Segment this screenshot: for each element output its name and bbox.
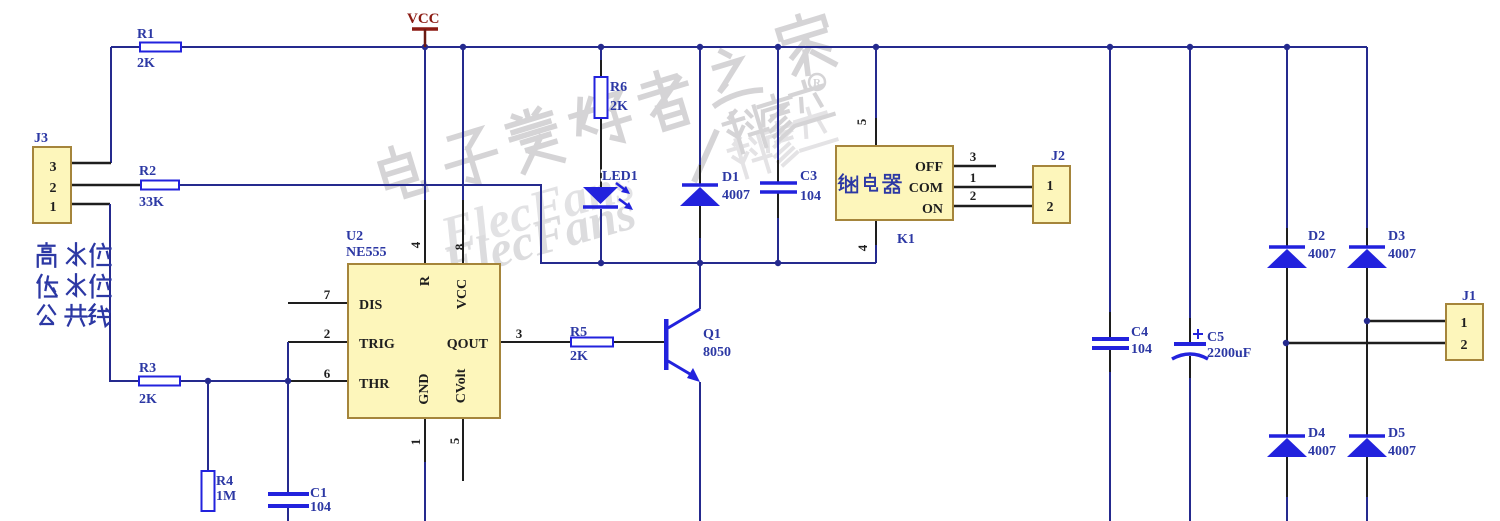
- wire J3 pin1 drop to THR line: [110, 204, 288, 381]
- svg-text:4007: 4007: [1308, 247, 1336, 262]
- wire J3 pin1 stub: [71, 203, 110, 206]
- label high water level: [38, 243, 111, 267]
- capacitor C4: [1092, 325, 1152, 357]
- svg-text:2K: 2K: [139, 392, 157, 407]
- wire C1 lower lead: [287, 508, 289, 521]
- wire R6 upper lead: [600, 47, 602, 60]
- node junction (876,47): [873, 44, 879, 50]
- svg-text:OFF: OFF: [915, 160, 943, 175]
- wire C4 column: [1109, 47, 1111, 312]
- node junction (1110,47): [1107, 44, 1113, 50]
- svg-text:R3: R3: [139, 361, 156, 376]
- wire pin8 VCC lead: [462, 47, 464, 200]
- diode D3: [1347, 229, 1416, 268]
- wire J3 pin2 stub: [71, 184, 141, 187]
- svg-text:Q1: Q1: [703, 327, 721, 342]
- svg-text:R: R: [418, 275, 433, 286]
- wire D3/D5 column: [1366, 47, 1368, 228]
- diode D5: [1347, 426, 1416, 459]
- transistor Q1: [664, 309, 731, 382]
- svg-text:QOUT: QOUT: [447, 337, 489, 352]
- node junction (700,263): [697, 260, 703, 266]
- svg-text:LED1: LED1: [602, 169, 638, 184]
- resistor R1: [137, 27, 181, 71]
- wire TRIG stub: [288, 341, 348, 343]
- wire THR stub: [288, 380, 348, 382]
- capacitor C1: [268, 486, 331, 515]
- svg-text:GND: GND: [417, 373, 432, 404]
- op-amp U2 NE555 body: [346, 229, 500, 418]
- svg-text:DIS: DIS: [359, 298, 383, 313]
- node junction (1287,47): [1284, 44, 1290, 50]
- wire C3 upper lead: [777, 47, 779, 160]
- svg-text:TRIG: TRIG: [359, 337, 395, 352]
- svg-text:D3: D3: [1388, 229, 1405, 244]
- svg-text:33K: 33K: [139, 195, 164, 210]
- svg-text:VCC: VCC: [407, 11, 440, 27]
- connector J3: [33, 131, 71, 223]
- wire TRIG drop to C1: [287, 342, 289, 492]
- svg-text:C1: C1: [310, 486, 327, 501]
- svg-text:4: 4: [408, 241, 423, 248]
- node junction (700,47): [697, 44, 703, 50]
- svg-text:104: 104: [1131, 342, 1152, 357]
- wire D2/D4 column: [1286, 47, 1288, 228]
- svg-text:8050: 8050: [703, 345, 731, 360]
- relay K1 body: [836, 146, 953, 247]
- wire J3 pin3 stub: [71, 162, 111, 165]
- svg-text:D4: D4: [1308, 426, 1325, 441]
- svg-text:3: 3: [516, 326, 523, 341]
- svg-text:1: 1: [1461, 316, 1468, 331]
- node junction (1367,321): [1364, 318, 1370, 324]
- label low water level: [38, 274, 111, 297]
- diode D4: [1267, 426, 1336, 459]
- svg-text:VCC: VCC: [455, 279, 470, 309]
- wire relay OFF stub: [952, 165, 996, 168]
- node junction (601,47): [598, 44, 604, 50]
- svg-text:3: 3: [50, 160, 57, 175]
- svg-text:2K: 2K: [570, 349, 588, 364]
- svg-text:2200uF: 2200uF: [1207, 346, 1251, 361]
- wire relay ON to J2: [952, 205, 1033, 208]
- svg-text:104: 104: [310, 500, 331, 515]
- label common line: [38, 305, 110, 327]
- svg-text:2: 2: [970, 188, 977, 203]
- wire J1 pin1: [1367, 320, 1446, 323]
- svg-text:R5: R5: [570, 325, 587, 340]
- svg-text:U2: U2: [346, 229, 363, 244]
- watermark line 2: [434, 74, 837, 292]
- wire CVolt pin lead: [462, 418, 464, 481]
- wire QOUT to Q1 base: [500, 341, 665, 343]
- svg-text:1: 1: [408, 439, 423, 446]
- diode D2: [1267, 229, 1336, 268]
- svg-text:5: 5: [854, 118, 869, 125]
- node junction (1190,47): [1187, 44, 1193, 50]
- svg-text:1: 1: [1047, 179, 1054, 194]
- svg-text:R2: R2: [139, 164, 156, 179]
- svg-text:104: 104: [800, 189, 821, 204]
- node junction (463,47): [460, 44, 466, 50]
- wire relay pin4: [875, 220, 877, 245]
- node junction (778,263): [775, 260, 781, 266]
- node junction (778,47): [775, 44, 781, 50]
- power VCC: [407, 11, 440, 47]
- wire top VCC bus: [111, 46, 1367, 48]
- svg-text:C4: C4: [1131, 325, 1148, 340]
- wire GND pin lead: [424, 418, 426, 462]
- svg-text:D2: D2: [1308, 229, 1325, 244]
- connector J2: [1033, 149, 1070, 223]
- node junction (425,47): [422, 44, 428, 50]
- svg-text:CVolt: CVolt: [454, 368, 469, 403]
- svg-text:4007: 4007: [1388, 444, 1416, 459]
- svg-text:2: 2: [324, 326, 331, 341]
- svg-text:NE555: NE555: [346, 245, 386, 260]
- svg-text:8: 8: [452, 243, 467, 250]
- svg-text:C5: C5: [1207, 330, 1224, 345]
- wire DIS stub: [288, 302, 348, 304]
- resistor R3: [139, 361, 180, 407]
- wire D1 lower lead: [699, 206, 701, 238]
- wire J3 pin3 riser: [110, 47, 112, 163]
- svg-text:R6: R6: [610, 80, 627, 95]
- svg-text:4007: 4007: [1388, 247, 1416, 262]
- wire D1 upper lead: [699, 47, 701, 165]
- svg-text:R4: R4: [216, 474, 233, 489]
- svg-text:3: 3: [970, 149, 977, 164]
- resistor R5: [570, 325, 613, 364]
- svg-text:6: 6: [324, 366, 331, 381]
- svg-text:4007: 4007: [722, 188, 750, 203]
- svg-text:4007: 4007: [1308, 444, 1336, 459]
- svg-text:R1: R1: [137, 27, 154, 42]
- wire R6 to LED1: [600, 118, 602, 187]
- svg-text:C3: C3: [800, 169, 817, 184]
- svg-text:1: 1: [50, 200, 57, 215]
- wire C5 column: [1189, 47, 1191, 318]
- node junction (1286,343): [1283, 340, 1289, 346]
- svg-text:D5: D5: [1388, 426, 1405, 441]
- svg-text:1M: 1M: [216, 489, 236, 504]
- capacitor C5 (polarized): [1172, 329, 1251, 361]
- node junction (601,263): [598, 260, 604, 266]
- wire relay pin5: [875, 47, 877, 118]
- svg-text:D1: D1: [722, 170, 739, 185]
- resistor R4: [202, 471, 237, 511]
- wire R4 drop: [207, 381, 209, 471]
- resistor R2: [139, 164, 179, 210]
- svg-text:THR: THR: [359, 377, 390, 392]
- svg-text:5: 5: [447, 437, 462, 444]
- svg-text:2: 2: [50, 181, 57, 196]
- connector J1: [1446, 289, 1483, 360]
- node junction (208,381): [205, 378, 211, 384]
- svg-text:J3: J3: [34, 131, 48, 146]
- wire Q1 emitter drop: [699, 382, 701, 521]
- svg-text:ON: ON: [922, 202, 943, 217]
- wire R2 output run: [179, 185, 876, 263]
- LED LED1: [583, 169, 638, 210]
- wire relay COM to J2: [952, 186, 1033, 189]
- svg-text:K1: K1: [897, 232, 915, 247]
- diode D1: [680, 170, 750, 206]
- wire LED1 lower lead: [600, 209, 602, 263]
- svg-text:2: 2: [1047, 200, 1054, 215]
- svg-text:1: 1: [970, 170, 977, 185]
- wire pin4 R lead: [424, 47, 426, 200]
- resistor R6: [595, 77, 629, 118]
- wire J1 pin2: [1286, 342, 1446, 345]
- svg-text:4: 4: [855, 244, 870, 251]
- svg-text:2K: 2K: [137, 56, 155, 71]
- capacitor C3: [760, 169, 821, 204]
- svg-text:R: R: [813, 77, 822, 89]
- svg-text:2: 2: [1461, 338, 1468, 353]
- svg-text:7: 7: [324, 287, 331, 302]
- svg-text:2K: 2K: [610, 99, 628, 114]
- svg-text:COM: COM: [909, 181, 943, 196]
- watermark line 1: [377, 10, 837, 201]
- wire C3 lower lead: [777, 192, 779, 218]
- svg-text:J2: J2: [1051, 149, 1065, 164]
- node junction (288,381): [285, 378, 291, 384]
- svg-text:J1: J1: [1462, 289, 1476, 304]
